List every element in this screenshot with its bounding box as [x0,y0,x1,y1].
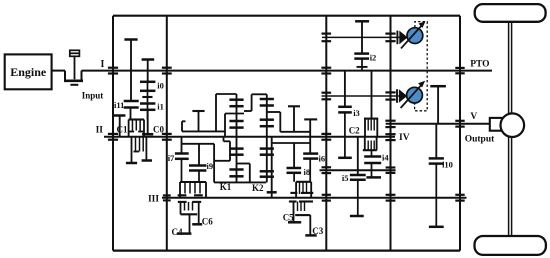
svg-text:I: I [101,59,105,70]
svg-text:C3: C3 [312,226,323,236]
svg-text:III: III [148,194,159,204]
svg-text:i11: i11 [114,100,124,110]
svg-text:Input: Input [82,90,104,100]
svg-text:C1: C1 [117,125,128,135]
svg-text:Engine: Engine [10,65,47,79]
svg-text:PTO: PTO [470,59,489,69]
svg-text:V: V [470,112,477,122]
svg-text:K2: K2 [252,183,264,193]
svg-text:i2: i2 [370,52,377,62]
svg-text:C2: C2 [349,125,360,135]
svg-text:i1: i1 [157,101,164,111]
svg-text:i7: i7 [168,153,175,163]
svg-text:II: II [96,126,104,136]
svg-text:i4: i4 [382,152,389,162]
svg-text:i3: i3 [353,108,360,118]
svg-text:i9: i9 [206,161,213,171]
svg-text:K1: K1 [220,182,232,192]
svg-text:i8: i8 [303,167,310,177]
svg-text:C0: C0 [153,125,164,135]
svg-text:C4: C4 [172,227,183,237]
svg-text:C5: C5 [283,212,294,222]
svg-text:i0: i0 [157,81,164,91]
svg-text:C6: C6 [202,216,213,226]
svg-text:i6: i6 [318,153,325,163]
svg-text:IV: IV [399,133,410,143]
svg-text:i10: i10 [442,159,453,169]
svg-text:i5: i5 [342,173,349,183]
svg-text:Output: Output [465,135,495,145]
